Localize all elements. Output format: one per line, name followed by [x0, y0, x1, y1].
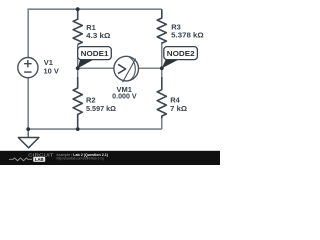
svg-text:5.597 kΩ: 5.597 kΩ [86, 104, 116, 113]
svg-text:LAB: LAB [35, 157, 44, 162]
wire top rail and left rail upper [28, 9, 162, 57]
resistor R4 [157, 77, 166, 118]
wire bottom right corner [161, 118, 163, 129]
footer logo resistor zigzag [9, 158, 32, 161]
svg-text:NODE2: NODE2 [167, 49, 195, 58]
node NODE1 label [78, 60, 93, 68]
resistor R1 [73, 9, 82, 44]
node B junction dot bottom middle [76, 127, 80, 131]
node ground junction dot [26, 127, 30, 131]
svg-text:10 V: 10 V [44, 67, 59, 76]
wire bottom rail [28, 128, 162, 130]
node NODE2 junction dot [160, 66, 164, 70]
wire voltmeter left [78, 67, 114, 69]
voltmeter VM1 [114, 56, 139, 81]
svg-text:5.378 kΩ: 5.378 kΩ [171, 31, 204, 40]
voltage source V1 [18, 58, 38, 78]
footer bar [0, 151, 220, 165]
wire right rail R3 to node [161, 42, 163, 90]
wire left rail lower [27, 78, 29, 129]
resistor R2 [73, 77, 82, 129]
svg-text:NODE1: NODE1 [81, 49, 109, 58]
svg-text:7 kΩ: 7 kΩ [170, 104, 187, 113]
svg-text:http://circuitlab.com/c/8fr64/: http://circuitlab.com/c/8fr64/lab-2-2q [57, 157, 104, 161]
node A junction dot top [76, 7, 80, 11]
footer logo LAB badge [33, 157, 45, 162]
ground [27, 129, 29, 137]
node NODE2 label [162, 60, 178, 68]
svg-text:4.3 kΩ: 4.3 kΩ [86, 31, 110, 40]
wire middle rail R1 to node [77, 45, 79, 89]
node NODE1 junction dot [76, 66, 80, 70]
wire voltmeter right [139, 67, 162, 69]
resistor R3 [157, 9, 166, 43]
svg-text:0.000 V: 0.000 V [112, 91, 137, 100]
